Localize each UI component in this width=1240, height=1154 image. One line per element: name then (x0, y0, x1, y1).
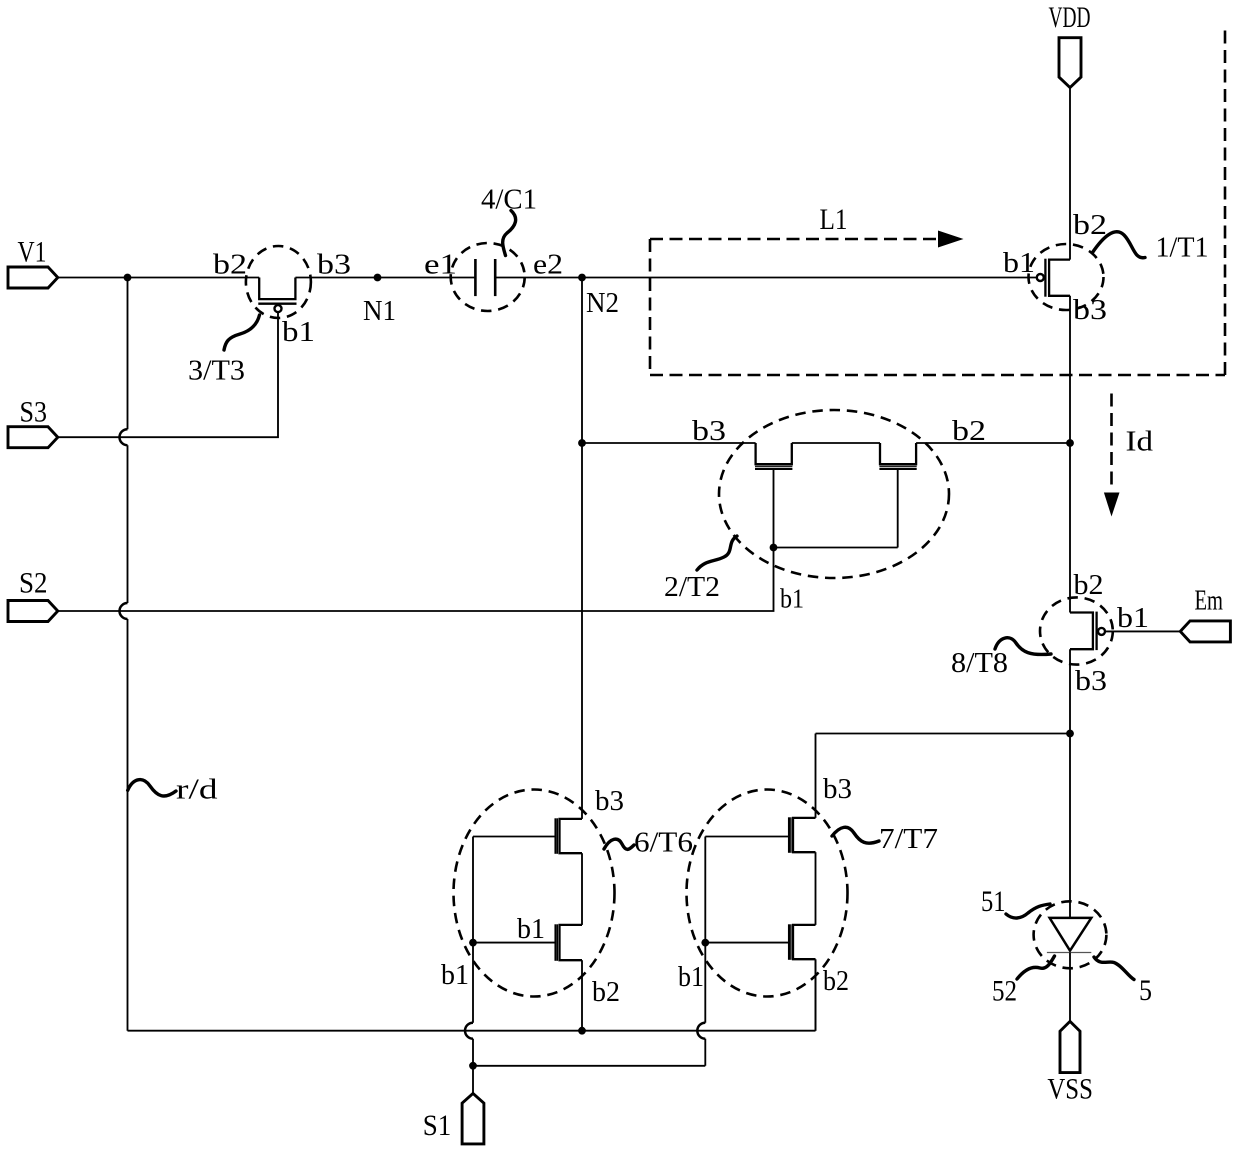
leader squiggle r/d (128, 780, 176, 796)
dashed circle C1 (451, 243, 525, 311)
terminal S2 (8, 567, 58, 622)
wire VDD to T1 (1069, 88, 1071, 260)
terminal V1 (8, 236, 58, 289)
wire T6 gate bus with hop (472, 837, 474, 1023)
dashed box L1 with arrow (650, 27, 1225, 375)
svg-text:r/d: r/d (176, 774, 218, 806)
terminal VSS (1047, 1021, 1093, 1105)
transistor T1 (1037, 259, 1070, 297)
svg-text:L1: L1 (820, 203, 848, 236)
svg-text:S2: S2 (19, 567, 48, 600)
svg-text:e2: e2 (533, 249, 563, 281)
node dot T2 gate (770, 544, 778, 552)
transistor T6 (dual gate) (473, 818, 582, 1030)
dashed ellipse T7 (687, 790, 848, 997)
svg-text:Em: Em (1195, 585, 1224, 617)
svg-text:b2: b2 (592, 976, 620, 1008)
svg-text:b1: b1 (517, 913, 545, 945)
leader squiggle C1 (503, 211, 516, 256)
node dot V1 branch (124, 274, 132, 282)
wire T2 b3 branch (582, 442, 756, 444)
svg-text:VDD: VDD (1049, 1, 1091, 34)
svg-text:2/T2: 2/T2 (664, 571, 720, 603)
svg-text:S1: S1 (423, 1109, 452, 1142)
svg-text:b1: b1 (1117, 602, 1149, 634)
svg-text:b3: b3 (317, 249, 351, 281)
svg-text:1/T1: 1/T1 (1156, 232, 1209, 264)
svg-text:b3: b3 (692, 415, 726, 447)
svg-text:b1: b1 (441, 959, 469, 991)
wire S3 to T3 gate (58, 313, 278, 437)
svg-text:Id: Id (1126, 426, 1154, 458)
wire bottom bus (128, 960, 816, 1030)
wire T7 gate bus with hop (704, 837, 706, 1023)
wire T8 b3 to diode (1069, 649, 1071, 918)
transistor T7 (dual gate) (705, 817, 815, 1030)
svg-text:8/T8: 8/T8 (951, 647, 1008, 679)
node dot T6 b2 bus (578, 1027, 586, 1035)
svg-text:3/T3: 3/T3 (188, 355, 245, 387)
svg-text:4/C1: 4/C1 (481, 184, 537, 216)
leader squiggle T2 (697, 536, 737, 570)
svg-text:b1: b1 (780, 584, 804, 614)
svg-text:b1: b1 (1003, 247, 1035, 279)
wire S1 stub (472, 1066, 474, 1094)
svg-text:6/T6: 6/T6 (634, 827, 693, 859)
svg-text:b3: b3 (595, 785, 624, 817)
leader squiggle 51 (1006, 904, 1050, 918)
dashed circle T8 (1040, 597, 1113, 664)
svg-text:VSS: VSS (1047, 1073, 1093, 1106)
dashed ellipse T2 (719, 410, 949, 578)
transistor T3 (258, 278, 296, 313)
svg-text:e1: e1 (424, 249, 457, 281)
wire S2 to T2 gate feed (58, 548, 774, 612)
wire T1 b3 to T8 b2 (1069, 296, 1071, 613)
wire T2 b2 to VDD line (916, 442, 1070, 444)
node dot S1 (469, 1062, 477, 1070)
svg-text:51: 51 (981, 885, 1006, 918)
dashed circle T1 (1029, 244, 1104, 310)
terminal S1 (423, 1093, 484, 1144)
wire V1 to T3 b2 (58, 277, 259, 279)
node dot T8 diode (1066, 730, 1074, 738)
arrow Id (1104, 394, 1120, 517)
wire T2 middle (792, 442, 880, 444)
node dot T6 gate (469, 939, 477, 947)
svg-text:b1: b1 (678, 961, 704, 993)
svg-text:b2: b2 (823, 965, 849, 997)
capacitor C1 (475, 259, 495, 296)
node dot T7 gate (701, 939, 709, 947)
terminal Em (1180, 585, 1230, 642)
svg-text:V1: V1 (18, 236, 47, 269)
wire C1 e2 to N2 to T1 b1 (496, 277, 1036, 279)
leader squiggle T6 (604, 839, 634, 849)
svg-text:b3: b3 (1073, 294, 1107, 326)
dashed ellipse T6 (454, 790, 615, 997)
svg-text:b2: b2 (1073, 209, 1107, 241)
leader squiggle T8 (995, 638, 1051, 655)
svg-text:b3: b3 (1075, 665, 1107, 697)
svg-text:b1: b1 (282, 316, 315, 348)
transistor T8 (1070, 612, 1180, 651)
svg-text:5: 5 (1139, 974, 1152, 1007)
leader squiggle T1 (1093, 232, 1146, 258)
svg-text:N2: N2 (586, 287, 619, 319)
svg-text:N1: N1 (363, 295, 396, 327)
svg-text:b2: b2 (952, 415, 986, 447)
dashed circle diode (1034, 901, 1107, 968)
svg-text:S3: S3 (20, 396, 48, 429)
svg-text:b2: b2 (1074, 569, 1104, 601)
svg-text:b2: b2 (213, 249, 247, 281)
node dot N2 (578, 274, 586, 282)
OLED diode 5 (1047, 918, 1091, 1022)
transistor T2 (dual gate) (755, 443, 917, 548)
leader squiggle 5 (1094, 957, 1134, 980)
dashed circle T3 (246, 246, 311, 318)
node dot N1 (374, 274, 382, 282)
svg-text:7/T7: 7/T7 (879, 823, 938, 855)
leader squiggle 52 (1017, 956, 1055, 979)
wire T7 b3 to T8 node (816, 734, 1071, 818)
terminal VDD (1049, 1, 1091, 88)
wire N2 vertical (581, 278, 583, 819)
node dot T2 b2 (1066, 439, 1074, 447)
svg-text:b3: b3 (823, 773, 852, 805)
leader squiggle T3 (224, 315, 260, 350)
terminal S3 (8, 396, 58, 448)
wire T3 b3 to C1 e1 (295, 277, 474, 279)
svg-text:52: 52 (992, 975, 1017, 1008)
leader squiggle T7 (832, 827, 879, 843)
wire S1 row (473, 1065, 705, 1067)
node dot T2 b3 (578, 439, 586, 447)
wire r/d vertical with hops over S3 S2 (127, 278, 129, 430)
